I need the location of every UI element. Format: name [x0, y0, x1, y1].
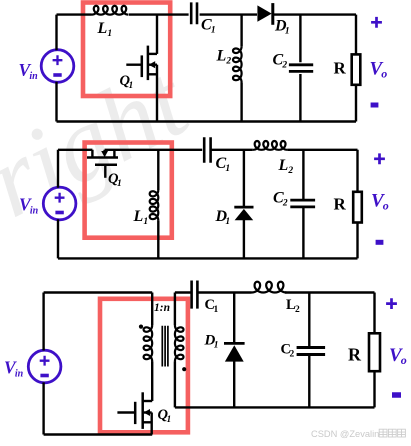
svg-text:in: in [29, 71, 38, 82]
svg-text:L: L [216, 48, 227, 65]
svg-text:1: 1 [213, 305, 218, 315]
svg-text:1: 1 [285, 27, 290, 37]
svg-text:1: 1 [214, 341, 219, 351]
svg-text:R: R [334, 195, 347, 214]
svg-text:2: 2 [289, 350, 294, 360]
svg-text:1: 1 [166, 415, 171, 425]
svg-text:2: 2 [282, 199, 288, 209]
svg-text:L: L [97, 20, 108, 37]
svg-text:CSDN @Zevalin: CSDN @Zevalin [311, 429, 379, 439]
svg-text:2: 2 [295, 305, 300, 315]
svg-text:1:n: 1:n [154, 302, 170, 314]
svg-text:o: o [381, 67, 387, 81]
svg-text:in: in [30, 206, 39, 217]
svg-text:2: 2 [281, 61, 287, 71]
svg-text:R: R [334, 59, 347, 78]
svg-text:1: 1 [143, 217, 148, 227]
svg-text:1: 1 [225, 217, 230, 227]
svg-text:in: in [15, 369, 24, 380]
svg-text:L: L [133, 208, 144, 225]
svg-text:1: 1 [107, 29, 112, 39]
svg-text:1: 1 [117, 179, 122, 189]
svg-text:1: 1 [211, 26, 216, 36]
svg-text:2: 2 [225, 57, 231, 67]
svg-text:2: 2 [287, 166, 293, 176]
svg-text:1: 1 [128, 81, 133, 91]
svg-text:1: 1 [225, 164, 230, 174]
svg-text:o: o [401, 353, 407, 367]
svg-text:R: R [348, 345, 362, 365]
svg-text:L: L [278, 157, 289, 174]
svg-text:o: o [383, 199, 389, 213]
